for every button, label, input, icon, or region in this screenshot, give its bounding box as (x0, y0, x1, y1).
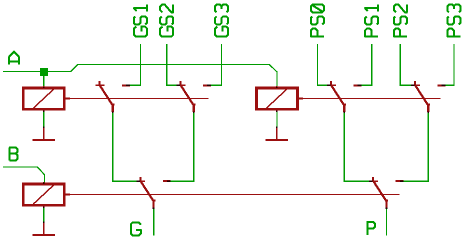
overlap contact SP bottom pin (385, 207, 387, 209)
wire PS1 column (362, 44, 372, 85)
overlap contact S4 arm pin (411, 84, 415, 86)
overlap contact S2 arm pin (177, 84, 181, 86)
ground under coil K1 (33, 127, 55, 141)
wire junction A drop to coil K1 (43, 71, 45, 86)
overlap contact SP arm pin (369, 180, 373, 182)
label PS2 (394, 4, 407, 36)
wire contact S1 bottom to contact SG arm (113, 113, 137, 182)
overlap coil K2 bottom pin (276, 111, 278, 112)
overlap contact S3 bottom pin (343, 111, 345, 113)
wire net B to coil K3 (3, 167, 44, 183)
linkage line coil K3 to contacts SG SP (66, 193, 400, 195)
label PS0 (311, 4, 324, 36)
coil K1 (23, 86, 70, 112)
label B (10, 148, 18, 161)
wire coil K3 to ground (43, 207, 45, 222)
overlap contact S2 bottom pin (193, 111, 195, 113)
overlap contact SG arm pin (136, 180, 140, 182)
wire PS3 column (446, 44, 454, 85)
overlap coil K3 top pin (43, 183, 45, 184)
overlap coil K1 top pin (43, 87, 45, 88)
wire net G below contact SG (153, 208, 155, 235)
label A (9, 52, 19, 65)
ground under coil K2 (266, 127, 288, 141)
overlap contact S1 fixed pin (126, 84, 130, 86)
overlap contact S4 bottom pin (427, 111, 429, 113)
label GS1 (134, 5, 147, 37)
wire PS2 column (400, 44, 411, 85)
wire contact S4 bottom to contact SP fixed plate (403, 113, 428, 182)
overlap contact S4 fixed pin (442, 84, 446, 86)
overlap contact SP fixed pin (400, 180, 404, 182)
wire net A horizontal with jog down to coil K1 pin (3, 64, 277, 86)
label GS2 (160, 4, 173, 36)
overlap coil K1 bottom pin (43, 111, 45, 112)
linkage line coil K1 to contacts S1 S2 (66, 98, 209, 100)
ground under coil K3 (33, 222, 55, 236)
overlap coil K3 bottom pin (43, 207, 45, 208)
contact S1 (GS1) (96, 81, 130, 112)
linkage line coil K2 to contacts S3 S4 (299, 98, 441, 100)
wire coil K1 to ground (43, 111, 45, 127)
overlap contact SG bottom pin (153, 207, 155, 209)
overlap ground 2 pin (276, 126, 278, 127)
contact S2 (GS2/GS3) (177, 81, 211, 112)
node junction on net A (40, 68, 48, 76)
overlap contact S2 fixed pin (207, 84, 211, 86)
label P (367, 222, 375, 235)
overlap contact S1 bottom pin (112, 111, 114, 113)
wire GS1 column (130, 44, 141, 85)
label GS3 (215, 4, 228, 36)
wire net P below contact SP (385, 208, 387, 235)
pin/wire overlap marks (dark) (126, 85, 445, 181)
wire coil K2 to ground (276, 111, 278, 127)
wire GS3 column (211, 44, 222, 85)
contact S4 (PS2/PS3) (411, 81, 445, 112)
overlap ground 1 pin (43, 126, 45, 127)
wire PS0 column (317, 44, 327, 85)
overlap contact S3 arm pin (327, 84, 331, 86)
wire GS2 column (167, 44, 177, 85)
coil K3 (23, 182, 70, 208)
contact SP (net P) (369, 177, 403, 208)
coil K2 (256, 86, 303, 112)
overlap contact S3 fixed pin (358, 84, 362, 86)
label PS3 (447, 4, 460, 36)
overlap ground 3 pin (43, 221, 45, 222)
wire contact S3 bottom to contact SP arm (344, 113, 370, 182)
wire contact S2 bottom to contact SG fixed plate (171, 113, 194, 182)
overlap contact SG fixed pin (167, 180, 171, 182)
overlap coil K2 top pin (276, 87, 278, 88)
contact SG (net G) (136, 177, 170, 208)
label G (131, 222, 141, 235)
label PS1 (365, 5, 378, 37)
contact S3 (PS0/PS1) (327, 81, 361, 112)
